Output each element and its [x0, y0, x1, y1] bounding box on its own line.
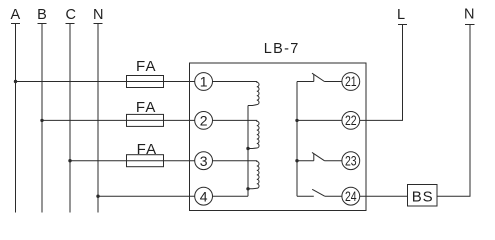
terminal A: [11, 24, 20, 213]
node coil junction W3: [246, 187, 249, 190]
fuse FA1: [127, 76, 164, 88]
node A junction: [14, 80, 17, 83]
wire contact 22: [297, 119, 342, 121]
wire coil bus: [247, 106, 249, 197]
wire phase C to pin 3: [70, 160, 195, 162]
svg-text:B: B: [37, 7, 47, 23]
svg-text:A: A: [10, 7, 20, 23]
pin 2: [195, 112, 213, 130]
svg-text:4: 4: [200, 188, 208, 204]
node contact bus junction 23: [295, 159, 298, 162]
fuse FA3: [127, 155, 164, 167]
node coil junction W2: [246, 147, 249, 150]
pin 4: [195, 187, 213, 205]
switch contact S21: [297, 73, 342, 81]
svg-text:BS: BS: [412, 189, 434, 206]
node B junction: [40, 119, 43, 122]
pin 23: [342, 152, 360, 170]
svg-text:3: 3: [200, 153, 208, 169]
node N junction: [96, 195, 99, 198]
pin 24: [342, 187, 360, 205]
wire BS to N: [437, 25, 470, 197]
terminal N right: [465, 24, 475, 26]
pin 21: [342, 73, 360, 91]
wire contact bus: [296, 82, 298, 197]
svg-text:24: 24: [345, 188, 357, 204]
coil W3: [212, 161, 259, 189]
switch contact S23: [297, 152, 342, 160]
svg-text:2: 2: [200, 113, 208, 129]
wire pin 24 to BS: [360, 195, 408, 197]
node contact bus junction 22: [295, 119, 298, 122]
svg-text:N: N: [93, 7, 103, 23]
wire phase A to pin 1: [16, 81, 196, 83]
fuse FA2: [127, 114, 164, 126]
switch contact S24: [297, 189, 342, 196]
node C junction: [68, 159, 71, 162]
wire pin 22 to L: [360, 25, 403, 121]
wire pin 4 to coil bus: [212, 195, 248, 197]
pin 1: [195, 73, 213, 91]
svg-text:FA: FA: [137, 141, 158, 158]
coil W1: [212, 82, 259, 106]
box LB-7: [190, 63, 367, 211]
box BS: [408, 185, 438, 207]
svg-text:23: 23: [345, 153, 357, 169]
pin 22: [342, 112, 360, 130]
pin 3: [195, 152, 213, 170]
terminal L: [398, 24, 407, 26]
svg-text:22: 22: [345, 113, 357, 129]
svg-text:FA: FA: [136, 99, 157, 116]
terminal B: [38, 24, 47, 213]
svg-text:L: L: [397, 7, 405, 23]
svg-text:LB-7: LB-7: [264, 41, 300, 57]
svg-text:N: N: [464, 7, 474, 23]
wire phase B to pin 2: [42, 119, 195, 121]
coil W2: [212, 120, 259, 148]
svg-text:21: 21: [345, 74, 357, 90]
svg-text:C: C: [66, 7, 76, 23]
terminal C: [66, 24, 75, 213]
terminal N: [94, 24, 103, 213]
svg-text:FA: FA: [136, 58, 157, 75]
svg-text:1: 1: [200, 74, 208, 90]
wire neutral to pin 4: [98, 195, 195, 197]
